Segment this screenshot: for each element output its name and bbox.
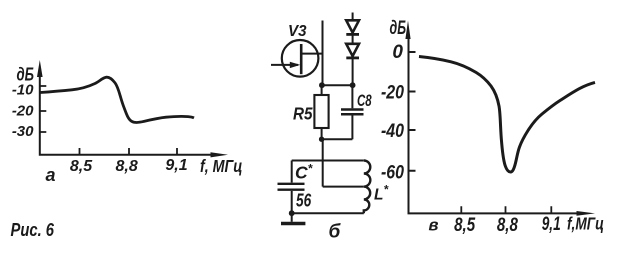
svg-text:0: 0 xyxy=(392,42,403,63)
svg-text:8,8: 8,8 xyxy=(115,158,137,175)
svg-text:-30: -30 xyxy=(12,123,34,140)
svg-text:8,5: 8,5 xyxy=(70,158,93,175)
svg-text:в: в xyxy=(429,216,439,234)
svg-text:дБ: дБ xyxy=(390,18,407,39)
svg-text:C*: C* xyxy=(295,162,314,183)
svg-text:R5: R5 xyxy=(293,104,313,124)
svg-text:C8: C8 xyxy=(357,91,372,110)
svg-text:б: б xyxy=(329,222,342,243)
svg-text:-40: -40 xyxy=(381,121,404,142)
svg-text:9,1: 9,1 xyxy=(165,157,187,174)
svg-text:8,5: 8,5 xyxy=(454,215,475,236)
svg-text:-60: -60 xyxy=(381,162,404,183)
svg-text:f, МГц: f, МГц xyxy=(200,156,243,176)
svg-text:-20: -20 xyxy=(381,82,404,103)
svg-text:9,1: 9,1 xyxy=(542,214,561,235)
svg-text:а: а xyxy=(45,165,55,185)
svg-text:8,8: 8,8 xyxy=(497,215,518,236)
svg-text:Рис. 6: Рис. 6 xyxy=(11,220,55,240)
svg-text:-10: -10 xyxy=(12,81,34,98)
svg-text:-20: -20 xyxy=(12,102,34,119)
svg-text:f,МГц: f,МГц xyxy=(567,214,604,234)
svg-text:L*: L* xyxy=(374,183,389,204)
svg-text:56: 56 xyxy=(296,191,312,211)
svg-text:V3: V3 xyxy=(288,23,307,40)
